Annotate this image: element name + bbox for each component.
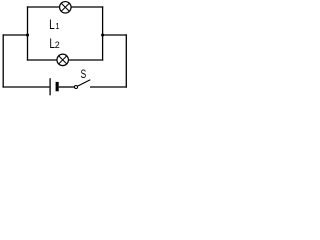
svg-text:L: L xyxy=(49,16,55,32)
svg-text:1: 1 xyxy=(55,22,59,31)
svg-text:2: 2 xyxy=(55,40,60,50)
svg-text:S: S xyxy=(81,67,87,81)
